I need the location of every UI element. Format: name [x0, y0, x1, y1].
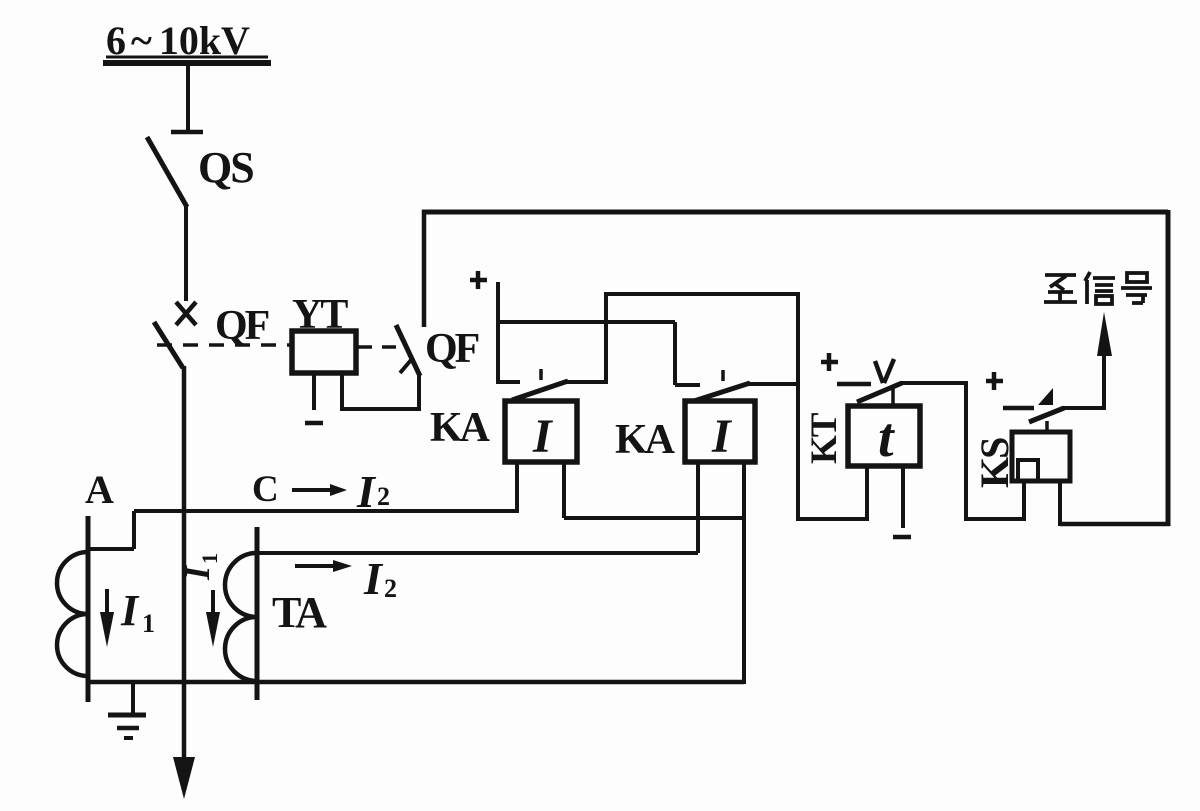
wire KA contacts join top	[604, 292, 798, 296]
arrow I1 right	[211, 590, 215, 614]
wire YT to QF aux bottom	[340, 407, 421, 411]
node busbar 6~10kV	[103, 60, 271, 66]
node minus below YT	[305, 421, 323, 426]
svg-text:I: I	[120, 586, 140, 635]
svg-text:I: I	[356, 466, 377, 517]
wire KT contact down	[964, 383, 968, 521]
wire dashed linkage YT to QF aux	[358, 345, 406, 349]
node minus below KT	[893, 535, 911, 540]
wire dashed linkage QF to YT	[157, 343, 290, 347]
contact KS flag	[1038, 388, 1053, 405]
svg-text:I: I	[711, 410, 733, 463]
wire KA1 right pin	[562, 462, 566, 518]
node QS top contact bar	[171, 130, 203, 135]
transformer TA phase C primary	[255, 527, 260, 700]
wire KA2 right pin to bottom	[742, 462, 746, 684]
wire KT coil left pin	[865, 466, 869, 519]
transformer TA phase C winding	[225, 553, 257, 681]
contact QF auxiliary blade	[396, 325, 420, 376]
svg-text:KT: KT	[804, 412, 845, 464]
relay coil KA2 box	[685, 401, 755, 462]
wire KA1 contact right lead	[566, 380, 608, 384]
wire KT contact to KS coil	[966, 517, 1026, 521]
svg-text:I: I	[532, 410, 554, 463]
wire top bus	[422, 210, 1168, 215]
wire KS contact left dash	[1003, 406, 1034, 411]
wire KS coil left pin	[1022, 481, 1026, 519]
ground	[131, 682, 135, 713]
svg-text:2: 2	[377, 482, 390, 511]
wire KS right pin return	[1060, 522, 1170, 527]
contact KT delay fork	[875, 361, 883, 383]
wire YT right pin	[340, 373, 344, 409]
wire KA2 contact left lead	[675, 383, 700, 387]
svg-text:TA: TA	[272, 588, 327, 637]
relay coil KS box	[1012, 432, 1070, 481]
wire KA output to KT coil	[798, 517, 869, 521]
node plus KA	[470, 278, 487, 283]
glyph hao	[1121, 273, 1152, 303]
contact KS blade	[1029, 408, 1064, 422]
svg-text:C: C	[252, 469, 279, 510]
wire feeder line	[182, 366, 187, 760]
feeder arrow	[173, 757, 195, 799]
svg-text:1: 1	[142, 609, 155, 638]
disconnector QS blade	[147, 137, 187, 207]
node plus KT	[821, 360, 838, 365]
svg-text:I: I	[177, 564, 217, 581]
wire KA2 contact drop	[673, 322, 677, 385]
wire KA2 left pin	[696, 462, 700, 553]
wire KS right pin	[1058, 481, 1062, 526]
glyph xin	[1085, 272, 1115, 304]
wire2 phase C secondary	[257, 551, 698, 555]
wire KT right pin	[901, 466, 905, 528]
svg-text:I: I	[363, 553, 384, 604]
label I1 right rotated	[177, 553, 222, 581]
wire KT contact right lead	[900, 381, 968, 385]
contact KA1 blade	[512, 381, 568, 400]
svg-text:QF: QF	[215, 303, 269, 349]
wire bottom return	[88, 680, 744, 685]
node plus KS	[986, 379, 1003, 384]
transformer TA phase A winding	[57, 552, 88, 676]
relay coil KA1 box	[505, 401, 577, 462]
wire QS to QF	[184, 206, 188, 301]
arrow I1 left	[105, 589, 109, 614]
wire plus feed vertical	[496, 282, 500, 384]
svg-text:1: 1	[197, 553, 222, 564]
wire KA output vertical	[796, 292, 800, 521]
wire right vertical	[1166, 210, 1171, 526]
contact KA2 blade	[694, 383, 750, 401]
signal arrow head	[1097, 312, 1112, 356]
wire KT contact stub to coil	[891, 386, 895, 406]
svg-text:t: t	[878, 407, 895, 469]
contact KA1 tick	[539, 369, 543, 380]
wire YT left pin	[312, 373, 316, 410]
arrow I2 top	[292, 488, 332, 492]
svg-text:QF: QF	[425, 326, 479, 372]
svg-text:A: A	[85, 467, 114, 512]
wire QF aux vertical	[417, 372, 421, 411]
relay coil KT box	[848, 406, 920, 466]
transformer TA phase A primary	[86, 516, 91, 702]
wire bus to QS	[186, 66, 190, 130]
svg-text:KA: KA	[430, 405, 491, 451]
wire KA1 contact left lead	[498, 380, 520, 384]
label zhi xin hao (to signal)	[1044, 272, 1152, 304]
wire KA1 contact up drop	[604, 294, 608, 382]
label KS rotated	[972, 438, 1017, 488]
wire KA1 to common return	[564, 516, 746, 520]
svg-text:KA: KA	[615, 417, 676, 463]
contact KA2 tick	[721, 370, 725, 381]
svg-text:2: 2	[384, 574, 397, 603]
wire KS contact to signal arrow	[1062, 406, 1104, 410]
wire KA1 left pin	[515, 462, 519, 513]
wire KT contact left dash	[837, 382, 871, 387]
contact QF auxiliary tick	[400, 360, 411, 373]
wire KA2 contact right lead	[748, 382, 800, 386]
relay KS inner box	[1018, 460, 1038, 481]
glyph zhi	[1044, 275, 1077, 302]
wire branch to KA2 contact	[498, 320, 675, 324]
wire KS contact stub to coil	[1045, 421, 1049, 432]
breaker QF blade	[154, 322, 183, 368]
arrow I2 bottom	[295, 564, 335, 568]
wire1 phase A secondary	[88, 547, 134, 551]
label KT rotated	[804, 412, 845, 464]
breaker QF cross mark	[176, 302, 196, 325]
coil YT box	[292, 331, 356, 373]
svg-text:QS: QS	[198, 143, 253, 192]
wire underline of bus label	[106, 56, 268, 59]
contact KT blade	[857, 383, 902, 402]
wire top bus left drop	[422, 210, 427, 327]
